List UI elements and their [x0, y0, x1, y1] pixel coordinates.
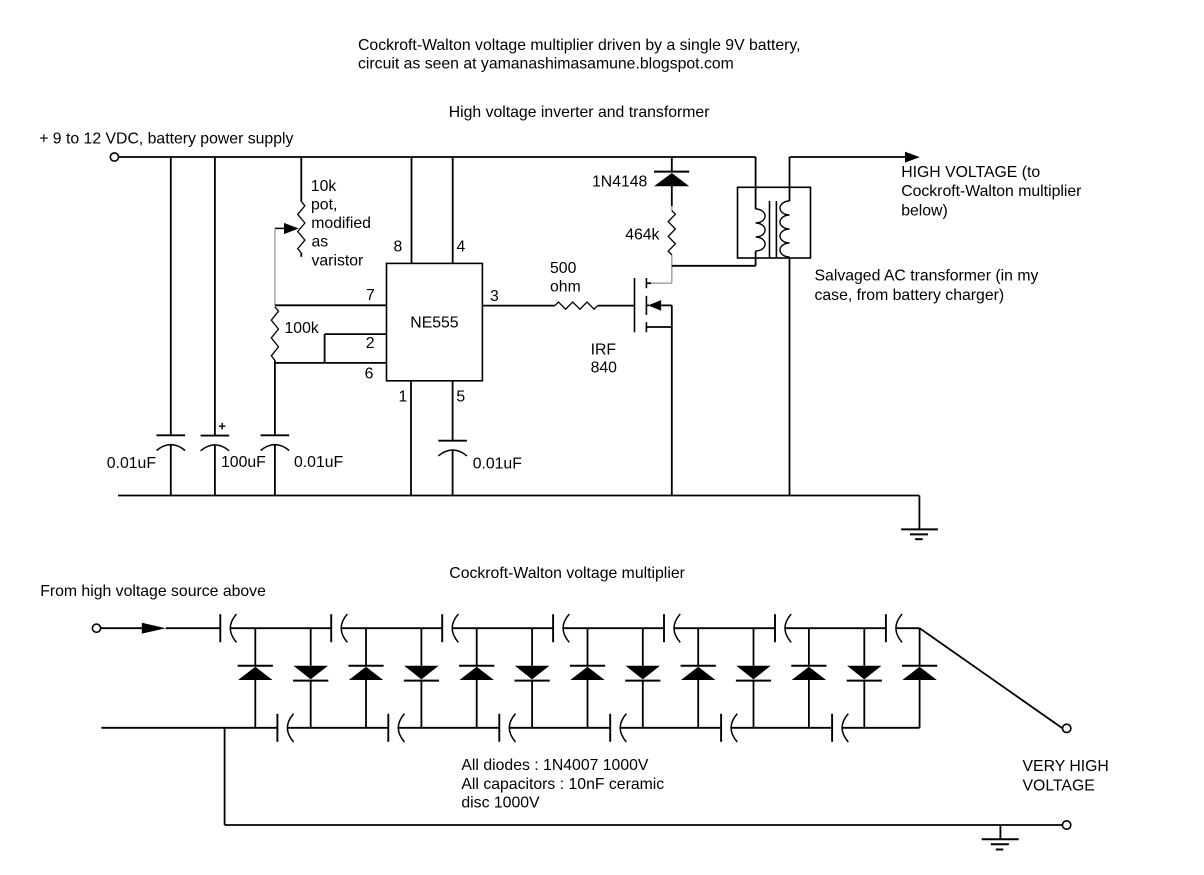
svg-text:7: 7	[366, 287, 375, 304]
wire: primary bottom	[755, 251, 757, 266]
wire: pin 7 line	[275, 304, 387, 306]
label: C3 value 0.01uF	[294, 454, 344, 471]
capacitor CW-C4 (top row)	[553, 614, 569, 642]
label: pin 8	[394, 239, 403, 256]
diode CW-D7 1N4007 (up)	[570, 628, 605, 728]
diode CW-D12 1N4007 (down)	[847, 628, 882, 728]
wire: wiper to pin7 (gray)	[274, 228, 276, 305]
wire: +V rail to D1	[671, 157, 673, 172]
svg-text:IRF: IRF	[591, 342, 617, 359]
svg-text:2: 2	[366, 335, 375, 352]
wire: HV input with arrow	[101, 623, 220, 634]
diode CW-D11 1N4007 (up)	[791, 628, 826, 728]
wire: primary top from +V rail	[755, 157, 757, 209]
wire: pot top from +V rail	[300, 157, 302, 202]
transistor Q1 channel bar (dashed)	[645, 278, 647, 332]
svg-text:disc 1000V: disc 1000V	[461, 795, 540, 812]
wire: C1 to ground rail	[170, 445, 172, 496]
label: C4 value 0.01uF	[473, 455, 523, 472]
wire: secondary top to HV node	[789, 157, 791, 201]
svg-text:pot,: pot,	[311, 197, 337, 214]
svg-text:case, from battery charger): case, from battery charger)	[815, 287, 1005, 304]
wire: bottom ladder rail segments	[101, 727, 919, 729]
node: HV input terminal	[92, 624, 100, 632]
label: R3 value 500 ohm	[550, 260, 581, 295]
svg-text:6: 6	[365, 366, 374, 383]
label: component values note	[461, 757, 664, 812]
text: section title inverter	[449, 104, 710, 121]
diode CW-D9 1N4007 (up)	[681, 628, 716, 728]
wire: pin6 node to C3	[274, 363, 276, 435]
svg-text:4: 4	[457, 239, 466, 256]
diode CW-D4 1N4007 (down)	[404, 628, 439, 728]
svg-text:0.01uF: 0.01uF	[107, 455, 157, 472]
capacitor CW-C3 (top row)	[442, 614, 458, 642]
capacitor CW-C10 (bottom row)	[499, 714, 515, 742]
label: pin 5	[456, 388, 465, 405]
node: battery + terminal	[110, 153, 118, 161]
svg-text:8: 8	[394, 239, 403, 256]
svg-text:10k: 10k	[311, 178, 337, 195]
wire: pin 5 to C4	[452, 381, 454, 441]
Q1 body diode arrow	[646, 300, 671, 311]
svg-text:+: +	[218, 419, 226, 434]
diode CW-D2 1N4007 (down)	[293, 628, 328, 728]
label: pin 1	[399, 388, 408, 405]
capacitor C2 100uF	[201, 436, 230, 451]
diode CW-D3 1N4007 (up)	[348, 628, 383, 728]
svg-text:HIGH VOLTAGE (to: HIGH VOLTAGE (to	[901, 164, 1040, 181]
svg-text:VERY HIGH: VERY HIGH	[1023, 758, 1109, 775]
text: battery supply label	[39, 131, 293, 148]
svg-text:Cockroft-Walton multiplier: Cockroft-Walton multiplier	[901, 183, 1081, 200]
node: return terminal	[1062, 821, 1070, 829]
svg-text:ohm: ohm	[550, 279, 581, 296]
svg-text:Salvaged AC transformer (in my: Salvaged AC transformer (in my	[815, 268, 1039, 285]
wire: R3 to gate	[598, 305, 635, 307]
wire: ladder return rail	[225, 728, 1063, 825]
diode CW-D5 1N4007 (up)	[459, 628, 494, 728]
wire: pin 3 line	[482, 305, 555, 307]
wire: D1 to R4	[671, 186, 673, 211]
wire: secondary bottom to ground rail	[789, 257, 791, 496]
svg-text:High voltage inverter and tran: High voltage inverter and transformer	[449, 104, 710, 121]
label: pin 7	[366, 287, 375, 304]
svg-text:All diodes : 1N4007 1000V: All diodes : 1N4007 1000V	[461, 757, 649, 774]
wire: pin 8 to +V rail	[411, 157, 413, 263]
capacitor CW-C1 (top row)	[220, 614, 236, 642]
label: Q1 IRF 840	[591, 342, 618, 377]
ground symbol (multiplier)	[982, 825, 1019, 850]
wire: C2 to ground rail	[214, 445, 216, 496]
svg-text:1N4148: 1N4148	[592, 173, 648, 190]
diode D1 1N4148	[654, 172, 689, 187]
diode CW-D6 1N4007 (down)	[515, 628, 550, 728]
resistor R2 100k	[271, 307, 278, 360]
transistor Q1 IRF840 gate plate	[634, 278, 636, 332]
capacitor CW-C6 (top row)	[775, 614, 791, 642]
svg-text:840: 840	[591, 360, 618, 377]
svg-text:below): below)	[901, 202, 948, 219]
text: from HV source label	[40, 583, 266, 600]
text: main title	[358, 37, 801, 72]
transformer T1 core	[770, 201, 777, 258]
wire: +V top rail	[119, 156, 756, 158]
svg-text:modified: modified	[311, 215, 371, 232]
capacitor CW-C7 (top row)	[886, 614, 902, 642]
wire: top ladder rail segments	[230, 627, 919, 629]
diode CW-D8 1N4007 (down)	[625, 628, 660, 728]
text: section title multiplier	[449, 565, 685, 582]
svg-text:0.01uF: 0.01uF	[473, 455, 523, 472]
wire: drain node to transformer primary	[672, 265, 756, 267]
capacitor CW-C5 (top row)	[664, 614, 680, 642]
capacitor CW-C13 (bottom row)	[832, 714, 848, 742]
wire: output diagonal	[920, 628, 1063, 728]
capacitor C4 0.01uF	[438, 441, 467, 456]
label: R4 value 464k	[625, 226, 659, 243]
wire: C2 branch from +V rail	[214, 157, 216, 436]
wire: Q1 source/body to ground rail	[671, 305, 673, 495]
IC U1 NE555 body	[387, 263, 483, 380]
label: pin 4	[457, 239, 466, 256]
svg-text:varistor: varistor	[312, 252, 364, 269]
wire: ground rail	[118, 495, 919, 497]
wire: C1 branch from +V rail	[170, 157, 172, 435]
svg-text:All capacitors : 10nF ceramic: All capacitors : 10nF ceramic	[461, 776, 664, 793]
diode CW-D13 1N4007 (up)	[902, 628, 937, 728]
svg-text:Cockroft-Walton voltage multip: Cockroft-Walton voltage multiplier drive…	[358, 37, 801, 54]
label: C2 value 100uF	[221, 454, 266, 471]
wire: pin 4 to +V rail	[452, 157, 454, 263]
Q1 drain link (gray)	[651, 255, 672, 283]
potentiometer R1 10k (varistor mod)	[298, 202, 305, 257]
svg-text:as: as	[312, 234, 329, 251]
node: VERY HIGH VOLTAGE terminal	[1063, 724, 1071, 732]
resistor R3 500 ohm	[555, 302, 598, 309]
Q1 source stub	[646, 326, 671, 328]
diode CW-D10 1N4007 (down)	[736, 628, 771, 728]
label: transformer note	[815, 268, 1039, 304]
svg-text:5: 5	[456, 388, 465, 405]
label: D1 1N4148	[592, 173, 648, 190]
svg-text:1: 1	[399, 388, 408, 405]
ground symbol (inverter)	[901, 496, 938, 540]
svg-text:+ 9 to 12 VDC, battery power s: + 9 to 12 VDC, battery power supply	[39, 131, 293, 148]
svg-text:100k: 100k	[285, 320, 319, 337]
capacitor CW-C8 (bottom row)	[277, 714, 293, 742]
wire: pin 6 line	[275, 360, 387, 363]
transformer T1 outline	[738, 187, 811, 258]
label: HIGH VOLTAGE text	[901, 164, 1081, 220]
capacitor CW-C9 (bottom row)	[388, 714, 404, 742]
label: pin 2	[366, 335, 375, 352]
label: C1 value 0.01uF	[107, 455, 157, 472]
svg-text:500: 500	[550, 260, 577, 277]
svg-text:NE555: NE555	[410, 314, 459, 331]
svg-text:circuit as seen at yamanashima: circuit as seen at yamanashimasamune.blo…	[358, 56, 734, 73]
svg-text:Cockroft-Walton voltage multip: Cockroft-Walton voltage multiplier	[449, 565, 685, 582]
Q1 drain stub	[646, 282, 651, 284]
transformer T1 secondary coil	[780, 201, 790, 257]
capacitor CW-C11 (bottom row)	[610, 714, 626, 742]
capacitor CW-C12 (bottom row)	[721, 714, 737, 742]
label: C2 polarity +	[218, 419, 226, 434]
svg-text:464k: 464k	[625, 226, 659, 243]
svg-text:From high voltage source above: From high voltage source above	[40, 583, 266, 600]
svg-text:3: 3	[490, 288, 499, 305]
label: R2 value 100k	[285, 320, 319, 337]
capacitor C3 0.01uF	[261, 435, 290, 450]
svg-text:VOLTAGE: VOLTAGE	[1023, 777, 1095, 794]
svg-text:0.01uF: 0.01uF	[294, 454, 344, 471]
label: VERY HIGH VOLTAGE	[1023, 758, 1109, 794]
capacitor CW-C2 (top row)	[331, 614, 347, 642]
wire: C4 to ground rail	[452, 450, 454, 495]
wire: pin 1 to ground rail	[410, 381, 412, 496]
wire: C3 to ground rail	[274, 445, 276, 496]
wire: HIGH VOLTAGE output with arrow	[790, 152, 920, 163]
label: pin 3	[490, 288, 499, 305]
wire: pin 2 line with jog	[325, 334, 387, 363]
transformer T1 primary coil	[756, 209, 766, 251]
label: pin 6	[365, 366, 374, 383]
resistor R4 464k	[668, 211, 675, 255]
capacitor C1 0.01uF	[157, 435, 186, 450]
svg-text:100uF: 100uF	[221, 454, 266, 471]
diode CW-D1 1N4007 (up)	[238, 628, 273, 728]
label: R1 10k pot text	[311, 178, 371, 269]
pot wiper arrow	[275, 223, 299, 234]
